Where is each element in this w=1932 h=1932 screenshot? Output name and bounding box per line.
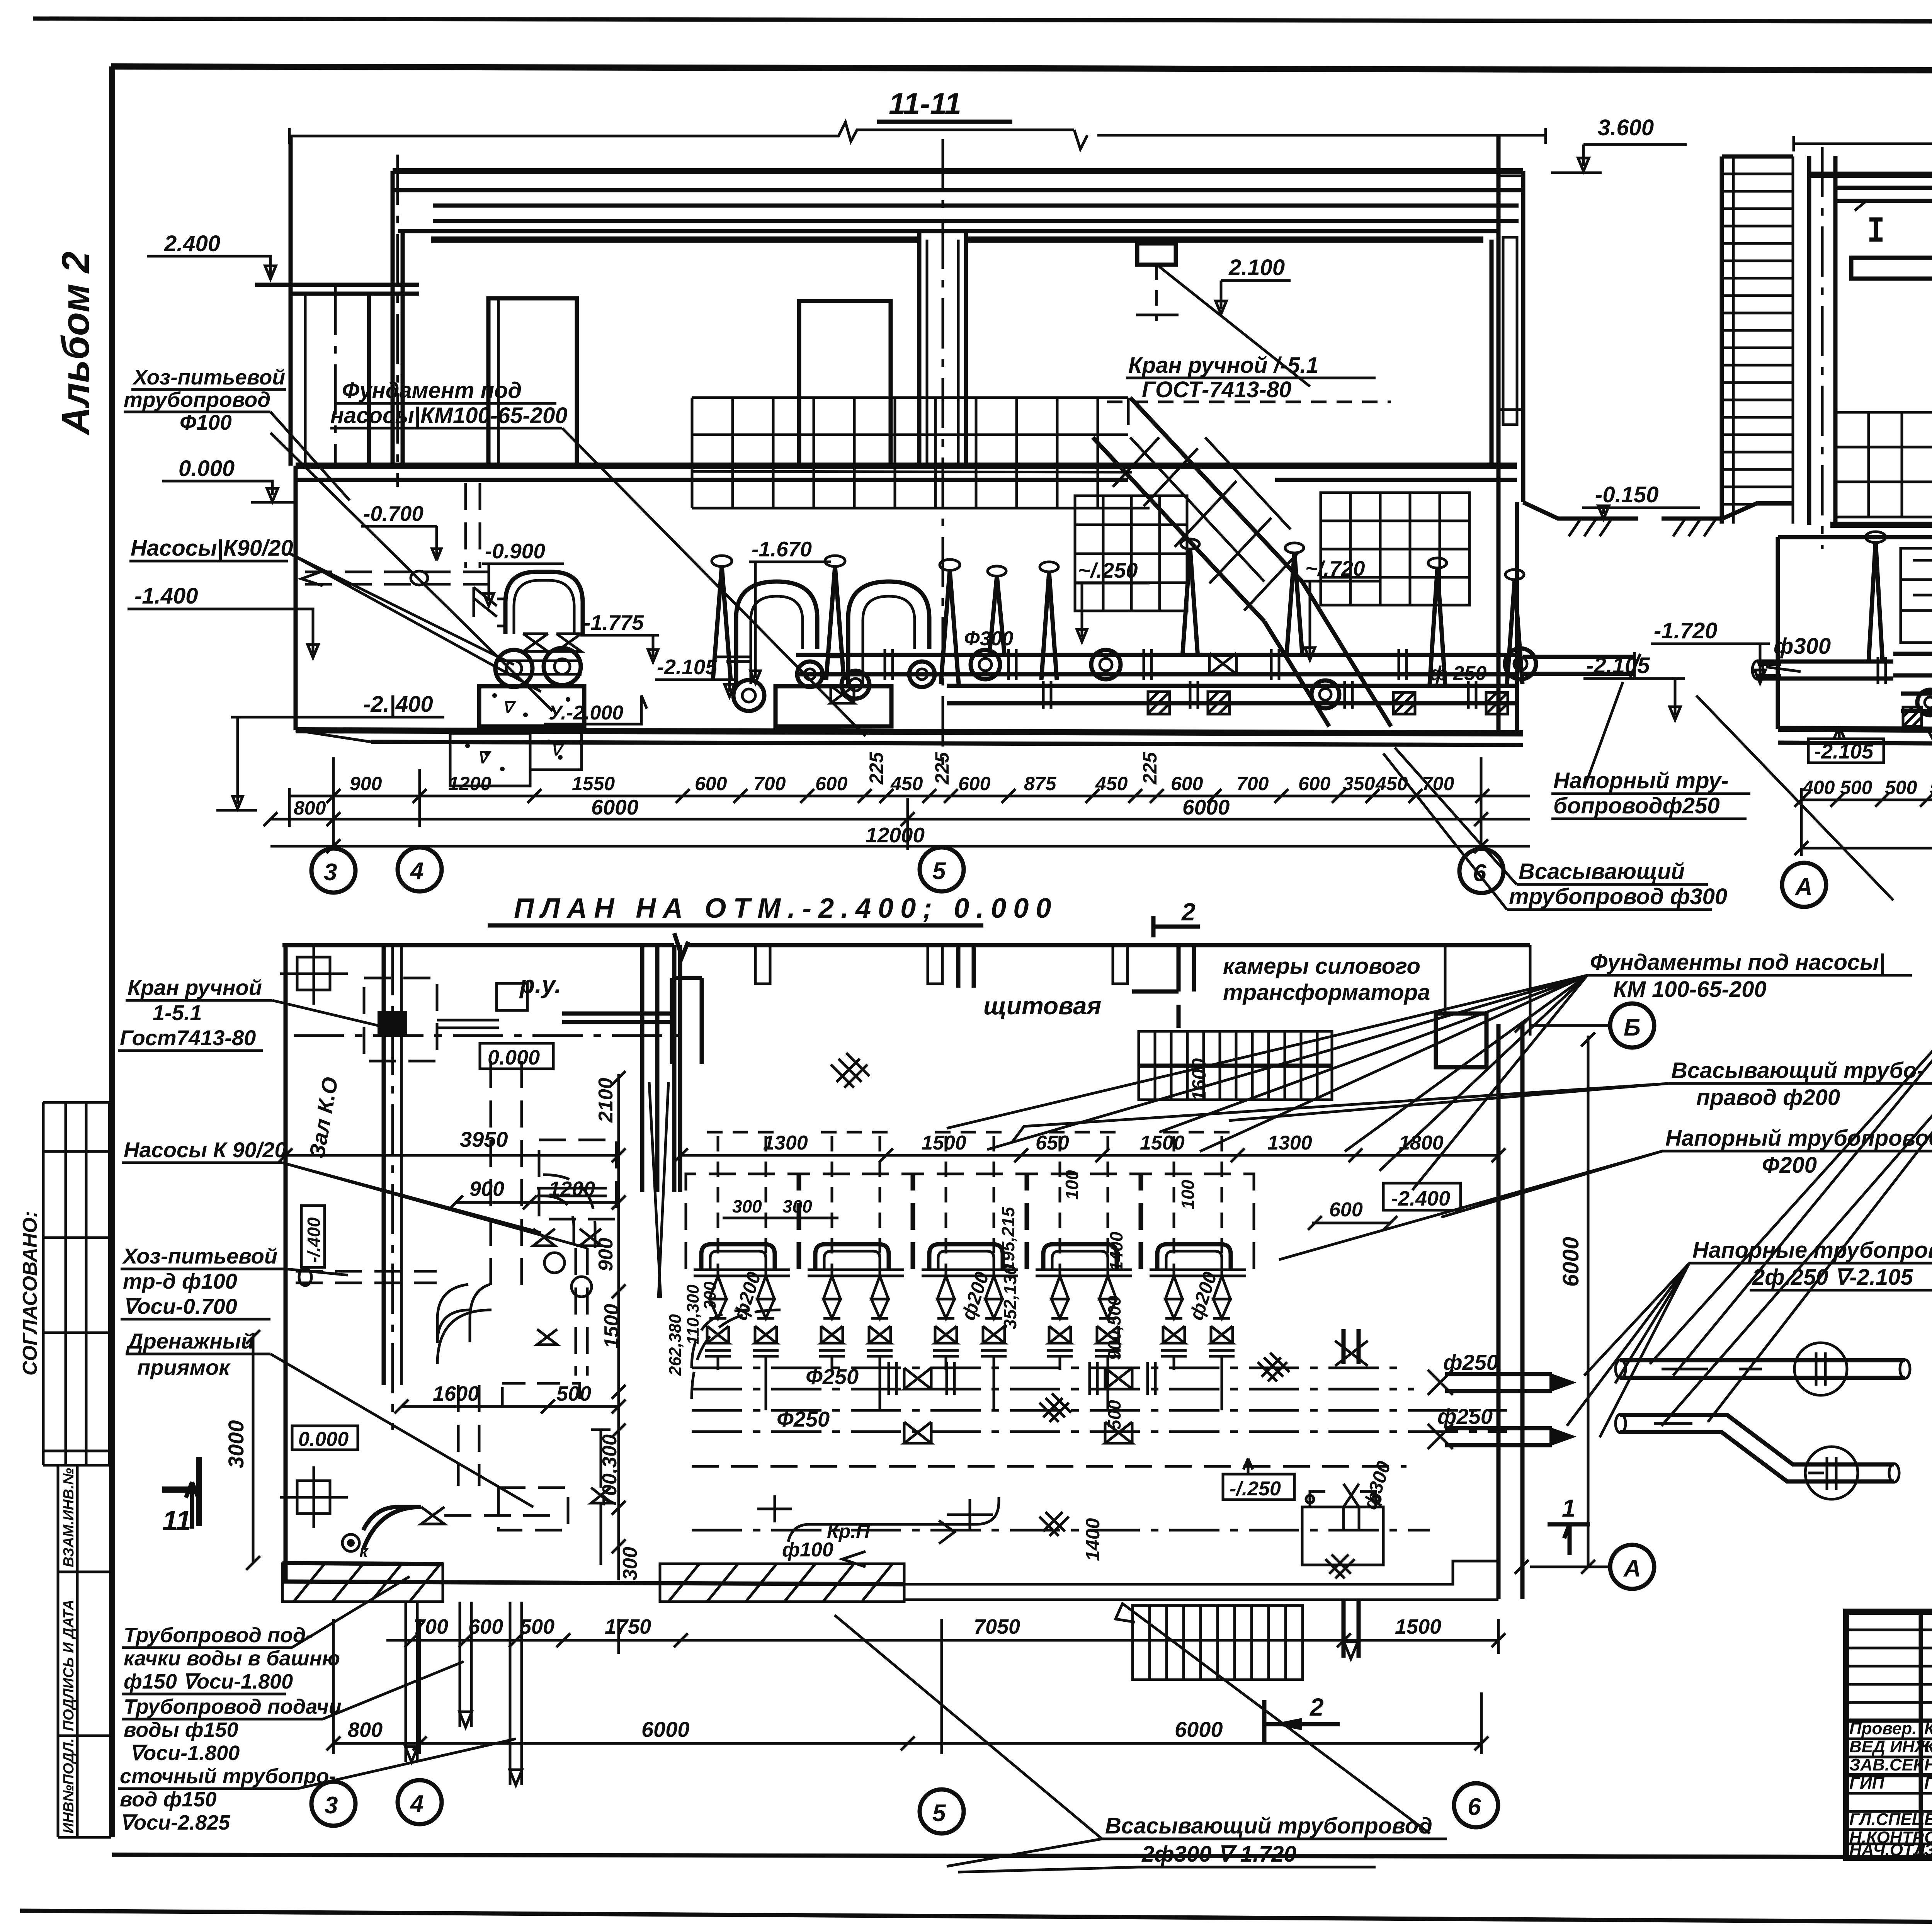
dims 900 1200	[456, 1201, 619, 1204]
svg-text:ф300: ф300	[1774, 634, 1831, 659]
600 dim right	[1312, 1222, 1391, 1225]
foundation grid large	[1321, 493, 1469, 605]
inner frame top	[111, 66, 1932, 72]
-2.105 box under pit	[1808, 739, 1884, 763]
svg-text:А: А	[1794, 874, 1813, 900]
svg-text:2.400: 2.400	[164, 231, 220, 256]
svg-text:6000: 6000	[1182, 795, 1230, 819]
pump foundation dashed	[686, 1174, 798, 1269]
pump tank grid	[1901, 548, 1932, 643]
svg-text:300: 300	[619, 1547, 641, 1580]
svg-text:6000: 6000	[591, 795, 639, 819]
svg-text:1500: 1500	[1395, 1615, 1441, 1638]
svg-text:400: 400	[1802, 777, 1835, 798]
svg-text:правод ф200: правод ф200	[1696, 1085, 1840, 1110]
svg-text:450: 450	[1095, 773, 1128, 794]
pipe piece 2 zigzag	[1620, 1415, 1894, 1481]
axis circle 3	[311, 849, 355, 893]
svg-text:∇оси-2.825: ∇оси-2.825	[120, 1811, 230, 1834]
svg-text:3000: 3000	[224, 1420, 248, 1468]
top sheet line	[33, 19, 1932, 22]
column marks left wall	[280, 943, 348, 1528]
svg-text:камеры силового: камеры силового	[1223, 954, 1420, 979]
svg-text:тр-д ф100: тр-д ф100	[123, 1269, 237, 1293]
manifold valves	[904, 1368, 931, 1443]
dims 1600 500	[401, 1405, 619, 1408]
hatched pads	[1148, 692, 1508, 714]
svg-text:Альбом 2: Альбом 2	[54, 252, 97, 436]
svg-text:Кр.П: Кр.П	[827, 1520, 870, 1542]
svg-text:-/.400: -/.400	[304, 1217, 324, 1263]
pipe flange circles	[971, 650, 1000, 679]
inner frame bottom	[112, 1855, 1932, 1858]
svg-text:2.100: 2.100	[1228, 255, 1285, 280]
svg-text:ПОДЛИСЬ И ДАТА: ПОДЛИСЬ И ДАТА	[61, 1600, 77, 1731]
pump unit K90/20 elevation	[505, 572, 583, 634]
hoz pipe entering left	[296, 1271, 437, 1283]
leader lines to pumps	[1696, 696, 1932, 989]
shaft walls mid	[642, 945, 680, 1192]
svg-text:Фундаменты под насосы|: Фундаменты под насосы|	[1590, 950, 1885, 975]
drop to manifolds	[718, 1356, 766, 1410]
small struct bottom right	[1302, 1492, 1383, 1565]
svg-text:ВЗАМ.ИНВ.№: ВЗАМ.ИНВ.№	[61, 1468, 77, 1567]
svg-text:3: 3	[325, 1792, 338, 1819]
0.000 box label 2	[292, 1426, 358, 1450]
svg-text:ВЕД ИНЖ: ВЕД ИНЖ	[1849, 1737, 1931, 1756]
pipe piece 1	[1620, 1360, 1905, 1378]
svg-text:ГОРДОН: ГОРДОН	[1924, 1774, 1932, 1793]
0.000 box label	[480, 1043, 553, 1069]
svg-text:ИНВ№ПОДЛ.: ИНВ№ПОДЛ.	[61, 1738, 77, 1833]
svg-text:1500: 1500	[922, 1132, 966, 1154]
ground line left	[1523, 502, 1794, 519]
left wall	[284, 945, 288, 1582]
funnel in pit	[1869, 541, 1883, 662]
column block top	[364, 978, 437, 1061]
crane bridge	[1851, 258, 1932, 279]
svg-text:110,300: 110,300	[684, 1284, 702, 1345]
pit walls and floor	[294, 466, 298, 730]
pipes to bottom	[406, 1602, 522, 1785]
leader fan	[947, 975, 1587, 1190]
svg-text:Всасывающий: Всасывающий	[1519, 859, 1685, 884]
svg-text:450: 450	[1375, 773, 1408, 794]
svg-text:12000: 12000	[866, 823, 925, 847]
svg-text:ф250: ф250	[1437, 1404, 1493, 1429]
bottom dim row	[386, 1639, 1498, 1642]
right wall double	[1497, 1024, 1501, 1599]
crosshatch marks	[831, 1053, 1355, 1578]
svg-text:5: 5	[932, 1800, 946, 1827]
svg-text:Фундамент под: Фундамент под	[342, 378, 522, 403]
fundament dashed rects	[539, 1140, 616, 1219]
svg-text:1300: 1300	[763, 1132, 808, 1154]
svg-text:875: 875	[1024, 773, 1057, 794]
svg-text:6000: 6000	[1558, 1237, 1583, 1287]
svg-text:6: 6	[1468, 1794, 1481, 1820]
stair tower	[1722, 156, 1793, 524]
svg-text:Всасывающий трубо-: Всасывающий трубо-	[1671, 1058, 1924, 1083]
svg-text:-1.775: -1.775	[583, 611, 644, 634]
drainage pit dashed	[498, 1488, 568, 1530]
plan dims top row	[681, 1154, 1498, 1157]
svg-text:262,380: 262,380	[666, 1314, 685, 1376]
svg-text:КМ 100-65-200: КМ 100-65-200	[1613, 977, 1767, 1002]
svg-text:СОГЛАСОВАНО:: СОГЛАСОВАНО:	[19, 1211, 41, 1376]
svg-text:1200: 1200	[549, 1177, 595, 1201]
foundation grid small	[1075, 496, 1187, 611]
manifold pipe 1	[692, 1367, 1406, 1369]
svg-text:трубопровод: трубопровод	[124, 388, 270, 412]
plan top wall	[282, 933, 1530, 957]
hatched pad	[1903, 707, 1922, 726]
dim row 12-12	[1801, 799, 1932, 801]
suction pipe dashed left	[305, 571, 498, 573]
svg-text:225: 225	[1139, 752, 1161, 785]
main discharge pipe	[796, 655, 1517, 674]
svg-text:100: 100	[1062, 1170, 1082, 1200]
svg-text:Браславский: Браславский	[1924, 1810, 1932, 1829]
svg-text:-2.|400: -2.|400	[363, 692, 433, 717]
transformer chamber walls	[1132, 945, 1194, 1028]
svg-text:Гост7413-80: Гост7413-80	[120, 1026, 256, 1050]
svg-text:∇оси-0.700: ∇оси-0.700	[123, 1294, 237, 1318]
suction pipe f300	[1757, 662, 1893, 679]
svg-text:ГОСТ-7413-80: ГОСТ-7413-80	[1142, 377, 1291, 402]
pit	[1776, 537, 1780, 729]
dim row 3	[270, 845, 1530, 848]
svg-text:600: 600	[958, 773, 991, 794]
svg-text:Ф250: Ф250	[806, 1364, 859, 1389]
svg-text:ГИП: ГИП	[1849, 1774, 1885, 1793]
svg-text:воды ф150: воды ф150	[124, 1718, 238, 1742]
svg-text:~/.250: ~/.250	[1078, 558, 1138, 582]
valve on vertical pipe	[591, 1430, 611, 1565]
svg-text:Всасывающий трубопровод: Всасывающий трубопровод	[1105, 1813, 1432, 1838]
svg-text:4: 4	[410, 858, 423, 884]
svg-text:Насосы К 90/20: Насосы К 90/20	[124, 1138, 287, 1162]
svg-text:1200: 1200	[448, 773, 491, 794]
svg-text:ф100: ф100	[782, 1539, 833, 1561]
elbow pipes bottom left	[363, 1507, 421, 1549]
svg-text:Ф250: Ф250	[777, 1407, 830, 1431]
svg-text:ЗАВ.СЕК: ЗАВ.СЕК	[1849, 1755, 1925, 1774]
svg-text:11-11: 11-11	[889, 87, 961, 121]
svg-text:600: 600	[815, 773, 848, 794]
pump unit plan x5	[686, 1136, 798, 1410]
svg-text:900: 900	[350, 773, 382, 794]
f300 drop pipe	[1344, 1329, 1359, 1364]
stair railing grid	[692, 398, 1150, 508]
svg-text:-2.105: -2.105	[1586, 653, 1650, 678]
pump piping	[1893, 654, 1932, 711]
svg-text:600: 600	[1171, 773, 1203, 794]
svg-text:1550: 1550	[572, 773, 615, 794]
dim verticals	[289, 757, 1481, 850]
svg-text:-0.150: -0.150	[1595, 482, 1658, 507]
svg-text:Провер.: Провер.	[1849, 1719, 1917, 1738]
svg-text:2: 2	[1310, 1693, 1324, 1721]
svg-text:300: 300	[782, 1196, 812, 1216]
svg-text:900: 900	[469, 1177, 504, 1201]
svg-text:7050: 7050	[974, 1615, 1020, 1638]
svg-text:Напорный тру-: Напорный тру-	[1553, 768, 1729, 793]
svg-text:700: 700	[1236, 773, 1269, 794]
right column	[1490, 240, 1494, 466]
outer bottom line	[20, 1911, 1932, 1926]
svg-text:350: 350	[1343, 773, 1375, 794]
floor 0.000 line	[1830, 522, 1932, 528]
door 2	[799, 301, 891, 466]
busbar	[562, 1014, 674, 1022]
svg-text:-2.105: -2.105	[657, 655, 718, 679]
right top column	[1436, 1014, 1486, 1067]
svg-text:600: 600	[1298, 773, 1331, 794]
svg-text:100: 100	[1178, 1180, 1198, 1209]
axis circle 5	[920, 847, 964, 891]
stair top plan	[1139, 1031, 1332, 1100]
svg-text:300: 300	[701, 1281, 719, 1310]
svg-text:600: 600	[468, 1615, 503, 1638]
axis circle 4	[398, 847, 442, 891]
svg-text:3950: 3950	[460, 1127, 508, 1151]
svg-text:Б: Б	[1624, 1014, 1641, 1041]
svg-text:-1.670: -1.670	[752, 537, 812, 561]
svg-text:сточный трубопро-: сточный трубопро-	[120, 1765, 336, 1788]
dim 3000 left	[246, 1330, 260, 1570]
svg-text:Насосы|К90/20: Насосы|К90/20	[131, 536, 293, 561]
funnel pumps	[712, 539, 1524, 684]
svg-text:1-5.1: 1-5.1	[153, 1000, 202, 1025]
svg-text:Кран ручной /-5.1: Кран ручной /-5.1	[1128, 353, 1319, 378]
left rows	[1846, 1630, 1932, 1844]
svg-text:500: 500	[556, 1382, 591, 1405]
svg-text:Дренажный: Дренажный	[126, 1329, 254, 1353]
svg-text:Хоз-питьевой: Хоз-питьевой	[132, 365, 285, 389]
svg-text:500: 500	[1885, 777, 1917, 798]
inner frame left	[109, 66, 115, 1837]
shchitovaya partition	[958, 945, 974, 988]
svg-text:Кочергина: Кочергина	[1924, 1719, 1932, 1738]
svg-text:КУЛАКОВА: КУЛАКОВА	[1924, 1737, 1932, 1756]
svg-text:1600: 1600	[1188, 1058, 1210, 1101]
interior wall K.O	[382, 945, 386, 1385]
svg-text:насосы|КМ100-65-200: насосы|КМ100-65-200	[330, 403, 568, 428]
svg-text:Трубопровод подачи: Трубопровод подачи	[124, 1695, 342, 1718]
svg-text:900,500: 900,500	[1104, 1296, 1124, 1360]
floor slab 0.000	[296, 463, 1517, 469]
svg-text:НАЧ.ОТД: НАЧ.ОТД	[1849, 1840, 1926, 1859]
-1.250 box	[1223, 1474, 1294, 1500]
svg-text:ПЛАН НА ОТМ.-2.400; 0.000: ПЛАН НА ОТМ.-2.400; 0.000	[514, 893, 1058, 924]
top wall pilasters	[755, 945, 1128, 984]
svg-text:1400: 1400	[1106, 1231, 1126, 1271]
svg-text:Трубопровод под-: Трубопровод под-	[124, 1624, 313, 1647]
svg-text:1400: 1400	[1082, 1518, 1104, 1561]
svg-text:0.000: 0.000	[179, 456, 235, 481]
svg-text:-/.250: -/.250	[1230, 1478, 1281, 1500]
top chord line	[289, 122, 1546, 149]
hoz pipe drop	[466, 483, 480, 568]
svg-text:1600: 1600	[433, 1382, 479, 1405]
svg-text:вод ф150: вод ф150	[120, 1788, 217, 1811]
roof slab	[393, 168, 1523, 174]
svg-text:Напорные трубопроводы: Напорные трубопроводы	[1692, 1238, 1932, 1263]
left main wall	[391, 171, 395, 466]
svg-text:11: 11	[162, 1505, 191, 1536]
window grid 1	[1835, 412, 1932, 517]
-2.400 box	[1383, 1183, 1461, 1210]
svg-text:Ф100: Ф100	[180, 410, 232, 434]
discharge pipe exit f250	[1523, 657, 1634, 674]
svg-text:1800: 1800	[1399, 1132, 1444, 1154]
bottom 6000 row	[333, 1742, 1481, 1745]
svg-text:-2.105: -2.105	[1814, 740, 1874, 763]
middle column	[917, 231, 922, 466]
centerline	[718, 1136, 766, 1275]
svg-text:500: 500	[1104, 1400, 1124, 1430]
svg-text:1: 1	[1562, 1494, 1576, 1522]
svg-text:НОВИК: НОВИК	[1924, 1755, 1932, 1774]
pump foundations dashed outline	[707, 1131, 1233, 1134]
footing blocks	[479, 686, 584, 726]
roof 12-12	[1809, 172, 1932, 178]
svg-text:-1.400: -1.400	[134, 583, 198, 609]
svg-text:225: 225	[866, 752, 887, 785]
svg-text:0.000: 0.000	[298, 1428, 349, 1451]
door 1	[488, 298, 577, 466]
svg-text:300: 300	[732, 1196, 762, 1216]
bowtie valves	[707, 1326, 729, 1343]
ceiling beam	[398, 229, 1499, 233]
svg-text:2ф.250 ∇-2.105: 2ф.250 ∇-2.105	[1752, 1265, 1913, 1290]
bottom stair plan	[1133, 1605, 1303, 1680]
valves on pump	[523, 634, 548, 651]
crane I-beam hangers	[1869, 219, 1932, 240]
svg-text:бопроводф250: бопроводф250	[1553, 793, 1720, 818]
svg-text:6000: 6000	[641, 1717, 690, 1742]
svg-text:4: 4	[410, 1791, 423, 1817]
svg-text:800: 800	[294, 797, 326, 819]
axis circles right	[1610, 1003, 1654, 1048]
drain channel dashdot	[692, 1529, 1430, 1532]
svg-text:А: А	[1623, 1555, 1641, 1582]
left columns verticals	[1919, 1612, 1923, 1858]
svg-text:Кран ручной: Кран ручной	[128, 975, 262, 1000]
svg-text:-0.900: -0.900	[485, 539, 545, 563]
dim 3950	[286, 1154, 619, 1157]
svg-text:600: 600	[1329, 1199, 1363, 1221]
valve funnels under pump	[709, 1276, 774, 1318]
svg-text:500: 500	[1840, 777, 1872, 798]
svg-text:450: 450	[890, 773, 923, 794]
svg-text:-1.720: -1.720	[1654, 618, 1717, 643]
pipes exit right	[1445, 1374, 1552, 1391]
svg-text:∇оси-1.800: ∇оси-1.800	[129, 1742, 240, 1765]
svg-text:352,130: 352,130	[1000, 1265, 1020, 1329]
pump casing	[701, 1244, 775, 1270]
drain pump cluster left	[491, 1061, 522, 1287]
K circle	[342, 1534, 359, 1551]
svg-text:1500: 1500	[1140, 1132, 1185, 1154]
svg-text:6000: 6000	[1175, 1717, 1223, 1742]
axis circle A	[1782, 863, 1826, 907]
svg-text:приямок: приямок	[137, 1355, 231, 1379]
svg-text:0.000: 0.000	[488, 1046, 540, 1069]
valve on main pipe	[1209, 653, 1236, 674]
U-loop pipe 2	[848, 582, 929, 684]
svg-text:Ф200: Ф200	[1762, 1153, 1817, 1178]
crane rail mark 2.100	[1137, 243, 1176, 265]
svg-text:У.-2.000: У.-2.000	[549, 702, 623, 724]
svg-text:2ф300 ∇-1.720: 2ф300 ∇-1.720	[1141, 1842, 1296, 1867]
svg-text:900: 900	[595, 1238, 617, 1271]
svg-text:трансформатора: трансформатора	[1223, 980, 1430, 1005]
-1.400 rotated box	[301, 1206, 325, 1267]
svg-text:1300: 1300	[1267, 1132, 1312, 1154]
svg-text:щитовая: щитовая	[983, 992, 1101, 1020]
stair flight hatched	[1093, 398, 1391, 726]
left annex wall	[289, 136, 293, 466]
svg-text:ф150 ∇оси-1.800: ф150 ∇оси-1.800	[124, 1670, 293, 1693]
svg-text:700: 700	[753, 773, 786, 794]
svg-text:2: 2	[1181, 898, 1196, 926]
svg-text:ф250: ф250	[1443, 1350, 1498, 1374]
section mark 11 left	[162, 1457, 199, 1526]
dim row 1	[289, 795, 1530, 798]
svg-text:качки воды в башню: качки воды в башню	[124, 1647, 340, 1670]
dim row 2	[270, 818, 1530, 821]
right wall window	[1503, 237, 1517, 425]
U-loop pipe 1	[736, 582, 817, 684]
svg-text:трубопровод ф300: трубопровод ф300	[1509, 884, 1727, 909]
svg-text:500: 500	[1930, 777, 1932, 798]
axis circles bottom	[311, 1782, 355, 1826]
dash-dot axis row	[294, 1034, 684, 1037]
svg-text:600: 600	[695, 773, 727, 794]
svg-text:ГЛ.СПЕЦ: ГЛ.СПЕЦ	[1849, 1810, 1924, 1829]
svg-text:800: 800	[348, 1718, 383, 1742]
svg-text:-0.700: -0.700	[363, 502, 423, 526]
svg-text:3.600: 3.600	[1598, 115, 1654, 140]
svg-text:3: 3	[324, 859, 337, 886]
soglasovano table	[42, 1102, 45, 1465]
LEFT MARGIN	[19, 252, 111, 1837]
bottom wall	[282, 1582, 904, 1584]
svg-text:-2.400: -2.400	[1391, 1187, 1450, 1210]
svg-text:500: 500	[520, 1615, 554, 1638]
svg-text:Хоз-питьевой: Хоз-питьевой	[122, 1244, 277, 1268]
hatched wall strips	[282, 1561, 1498, 1602]
column left	[1807, 156, 1811, 525]
inv strip	[57, 1465, 60, 1837]
svg-text:Напорный трубопровод: Напорный трубопровод	[1665, 1126, 1932, 1151]
manifold pipe 2	[692, 1409, 1507, 1412]
svg-text:Заплетохин: Заплетохин	[1924, 1840, 1932, 1859]
svg-text:225: 225	[931, 752, 953, 785]
title block frame	[1846, 1612, 1932, 1858]
suction elbows dashed	[692, 1310, 781, 1399]
svg-text:1750: 1750	[605, 1615, 651, 1638]
svg-text:5: 5	[932, 858, 946, 884]
center cross marks	[757, 1495, 993, 1530]
axis circle 6	[1459, 849, 1503, 893]
top chord	[1794, 131, 1932, 151]
svg-text:195,215: 195,215	[998, 1206, 1018, 1271]
